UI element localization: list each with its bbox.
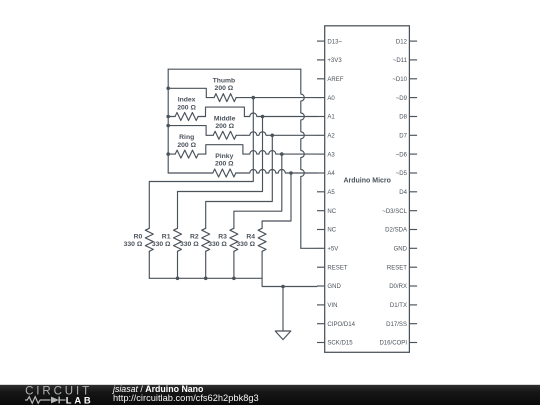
pin stub right D7 xyxy=(409,134,417,136)
node junction: thumb feed on left bus xyxy=(166,87,170,91)
svg-text:GND: GND xyxy=(327,284,341,290)
svg-text:Ring: Ring xyxy=(179,134,194,141)
svg-text:D13~: D13~ xyxy=(327,39,342,45)
pin stub right ~D9 xyxy=(409,97,417,99)
svg-text:D2/SDA: D2/SDA xyxy=(385,228,408,234)
node junction: middle feed on left bus xyxy=(166,124,170,128)
label Index value xyxy=(177,97,196,112)
wire drop from A1 row down and left to R1 xyxy=(178,117,263,229)
pin stub right ~D3/SCL xyxy=(409,210,417,212)
pin stub right D1/TX xyxy=(409,304,417,306)
pin stub left A5 xyxy=(317,191,325,193)
label Middle value xyxy=(214,115,236,130)
wire R4 bottom lead to ground bus xyxy=(261,251,263,278)
svg-text:~D3/SCL: ~D3/SCL xyxy=(382,209,407,215)
pin stub left A0 xyxy=(317,97,325,99)
svg-text:A5: A5 xyxy=(327,190,335,196)
wire Pinky row lead from bus xyxy=(168,172,213,174)
svg-text:+3V3: +3V3 xyxy=(327,58,342,64)
pin stub right D8 xyxy=(409,116,417,118)
svg-text:Arduino Micro: Arduino Micro xyxy=(343,178,390,185)
wire drop from A0 row down and left to R0 xyxy=(149,98,253,229)
pin stub right D12 xyxy=(409,40,417,42)
pin stub left AREF xyxy=(317,78,325,80)
wire thumb feed (bus to Thumb resistor) xyxy=(168,88,206,97)
svg-text:200 Ω: 200 Ω xyxy=(177,142,196,149)
resistor Index 200 Ohm xyxy=(168,113,205,121)
pin stub right D0/RX xyxy=(409,285,417,287)
node junction: R3 on ground bus xyxy=(232,277,236,281)
node junction: D0 drop on A0 row xyxy=(252,96,256,100)
pin stub right D4 xyxy=(409,191,417,193)
pin stub left NC xyxy=(317,229,325,231)
wire A3 row to pin A3 (hops over D0,D1,D2) xyxy=(243,151,317,154)
pin stub right D17/SS xyxy=(409,323,417,325)
svg-text:330 Ω: 330 Ω xyxy=(236,241,255,248)
footer credit text xyxy=(113,385,259,403)
svg-text:D7: D7 xyxy=(399,134,407,140)
svg-text:Index: Index xyxy=(178,97,196,104)
pin stub left CIPO/D14 xyxy=(317,323,325,325)
svg-text:RESET: RESET xyxy=(327,265,347,271)
wire left +5V bus xyxy=(167,69,169,173)
svg-text:AREF: AREF xyxy=(327,77,343,83)
node junction: R2 on ground bus xyxy=(204,277,208,281)
label R0 value xyxy=(124,233,143,248)
wire top +5V bus xyxy=(168,68,301,70)
pin stub left SCK/D15 xyxy=(317,342,325,344)
svg-text:R4: R4 xyxy=(246,233,255,240)
pin stub left VIN xyxy=(317,304,325,306)
wire R1 bottom lead to ground bus xyxy=(177,251,179,278)
svg-text:D8: D8 xyxy=(399,115,407,121)
resistor R3 330 Ohm xyxy=(230,228,238,251)
svg-text:R0: R0 xyxy=(134,233,143,240)
svg-text:R1: R1 xyxy=(162,233,171,240)
op-amp/IC U1 Arduino Micro body xyxy=(325,26,410,353)
label R4 value xyxy=(236,233,255,248)
svg-text:A2: A2 xyxy=(327,134,335,140)
wire drop from A2 row down and left to R2 xyxy=(206,135,273,228)
svg-text:Middle: Middle xyxy=(214,115,236,122)
pin stub left A2 xyxy=(317,134,325,136)
svg-text:D4: D4 xyxy=(399,190,407,196)
svg-text:RESET: RESET xyxy=(387,265,407,271)
pin stub left NC xyxy=(317,210,325,212)
svg-text:SCK/D15: SCK/D15 xyxy=(327,341,353,347)
node junction: D1 drop on A1 row xyxy=(261,115,265,119)
svg-text:VIN: VIN xyxy=(327,303,337,309)
node junction: R1 on ground bus xyxy=(176,277,180,281)
svg-text:D17/SS: D17/SS xyxy=(386,322,407,328)
svg-text:D16/COPI: D16/COPI xyxy=(379,341,407,347)
resistor R2 330 Ohm xyxy=(202,228,210,251)
pin stub left +5V xyxy=(317,247,325,249)
resistor R4 330 Ohm xyxy=(258,228,266,251)
svg-text:~D6: ~D6 xyxy=(396,152,408,158)
pin stub left RESET xyxy=(317,266,325,268)
svg-text:NC: NC xyxy=(327,209,336,215)
wire A3 jog over Pinky label xyxy=(206,145,243,154)
label R3 value xyxy=(208,233,227,248)
wire A2 row to pin A2 (hops over D0,D1) xyxy=(244,132,317,135)
node junction: D4 drop on A4 row xyxy=(289,171,293,175)
pin stub left A3 xyxy=(317,153,325,155)
pin stub right D2/SDA xyxy=(409,229,417,231)
pin stub left GND xyxy=(317,285,325,287)
pin stub right GND xyxy=(409,247,417,249)
svg-text:A0: A0 xyxy=(327,96,335,102)
svg-text:~D11: ~D11 xyxy=(393,58,408,64)
wire ground symbol drop xyxy=(282,287,284,332)
resistor R1 330 Ohm xyxy=(174,228,182,251)
wire ground bus xyxy=(149,278,317,286)
label R2 value xyxy=(180,233,199,248)
svg-text:GND: GND xyxy=(394,247,408,253)
wire +5V pin lead from riser to +5V pin xyxy=(301,247,317,249)
svg-text:A3: A3 xyxy=(327,152,335,158)
wire R2 bottom lead to ground bus xyxy=(205,251,207,278)
node junction: D2 drop on A2 row xyxy=(271,134,275,138)
pin stub right ~D5 xyxy=(409,172,417,174)
svg-text:200 Ω: 200 Ω xyxy=(177,104,196,111)
node junction: ground symbol tap xyxy=(281,285,285,289)
svg-text:A4: A4 xyxy=(327,171,335,177)
footer bar xyxy=(0,384,540,405)
svg-text:200 Ω: 200 Ω xyxy=(215,85,234,92)
resistor Middle 200 Ohm xyxy=(206,131,244,139)
svg-text:Pinky: Pinky xyxy=(215,153,233,160)
svg-text:330 Ω: 330 Ω xyxy=(152,241,171,248)
wire drop from A3 row down and left to R3 xyxy=(234,154,282,228)
label Ring value xyxy=(177,134,196,149)
wire A4 row to pin A4 (hops over D0,D1,D2,D3) xyxy=(238,170,317,174)
label R1 value xyxy=(152,233,171,248)
node junction: D3 drop on A3 row xyxy=(280,152,284,156)
svg-text:~D10: ~D10 xyxy=(392,77,407,83)
svg-text:Thumb: Thumb xyxy=(213,77,236,84)
wire A1 jog over Middle label xyxy=(206,107,245,116)
svg-text:~D5: ~D5 xyxy=(396,171,408,177)
ground symbol xyxy=(275,331,291,340)
svg-text:330 Ω: 330 Ω xyxy=(180,241,199,248)
svg-text:D12: D12 xyxy=(396,39,408,45)
pin stub left A4 xyxy=(317,172,325,174)
node junction: Index on left bus xyxy=(166,115,170,119)
svg-text:330 Ω: 330 Ω xyxy=(124,241,143,248)
label Thumb value xyxy=(213,77,236,92)
CircuitLab logo xyxy=(20,384,130,405)
pin stub right D16/COPI xyxy=(409,342,417,344)
resistor Pinky 200 Ohm xyxy=(213,169,238,177)
pin stub right ~D6 xyxy=(409,153,417,155)
wire A0 row from Thumb to pin A0 xyxy=(244,97,317,99)
svg-text:NC: NC xyxy=(327,228,336,234)
resistor Thumb 200 Ohm xyxy=(206,94,244,102)
svg-text:330 Ω: 330 Ω xyxy=(208,241,227,248)
svg-text:~D9: ~D9 xyxy=(396,96,408,102)
pin stub left A1 xyxy=(317,116,325,118)
wire A1 row to pin A1 (hop over D0) xyxy=(244,113,317,116)
pin stub left +3V3 xyxy=(317,59,325,61)
node junction: Ring on left bus xyxy=(166,152,170,156)
pin stub right RESET xyxy=(409,266,417,268)
svg-text:D0/RX: D0/RX xyxy=(389,284,407,290)
svg-text:LAB: LAB xyxy=(66,394,94,405)
svg-text:A1: A1 xyxy=(327,115,335,121)
label Pinky value xyxy=(215,153,234,168)
wire +5V riser (hops over A0-A4 rows) xyxy=(301,69,305,248)
pin stub right ~D11 xyxy=(409,59,417,61)
wire drop from A4 row down and left to R4 xyxy=(262,173,291,228)
svg-text:R2: R2 xyxy=(190,233,199,240)
resistor Ring 200 Ohm xyxy=(168,150,206,158)
svg-text:D1/TX: D1/TX xyxy=(390,303,407,309)
wire middle feed (bus to Middle resistor) xyxy=(168,126,206,136)
svg-text:CIPO/D14: CIPO/D14 xyxy=(327,322,355,328)
svg-text:R3: R3 xyxy=(218,233,227,240)
pin stub left D13~ xyxy=(317,40,325,42)
wire R0 bottom lead to ground bus xyxy=(148,251,150,278)
wire R3 bottom lead to ground bus xyxy=(233,251,235,278)
resistor R0 330 Ohm xyxy=(145,228,153,251)
svg-text:200 Ω: 200 Ω xyxy=(215,161,234,168)
pin stub right ~D10 xyxy=(409,78,417,80)
svg-text:+5V: +5V xyxy=(327,247,338,253)
svg-text:200 Ω: 200 Ω xyxy=(215,123,234,130)
